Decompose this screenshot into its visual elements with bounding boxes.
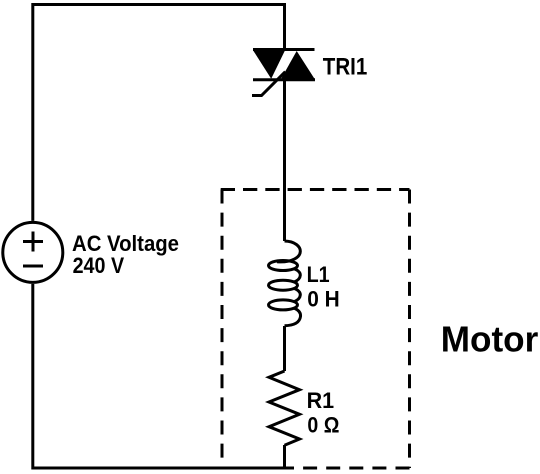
svg-text:0 Ω: 0 Ω bbox=[307, 412, 339, 437]
svg-text:R1: R1 bbox=[307, 388, 335, 413]
svg-text:L1: L1 bbox=[307, 262, 330, 287]
svg-text:Motor: Motor bbox=[441, 318, 539, 359]
svg-text:240 V: 240 V bbox=[73, 253, 125, 278]
svg-text:0 H: 0 H bbox=[307, 286, 340, 311]
svg-text:TRI1: TRI1 bbox=[323, 53, 368, 80]
